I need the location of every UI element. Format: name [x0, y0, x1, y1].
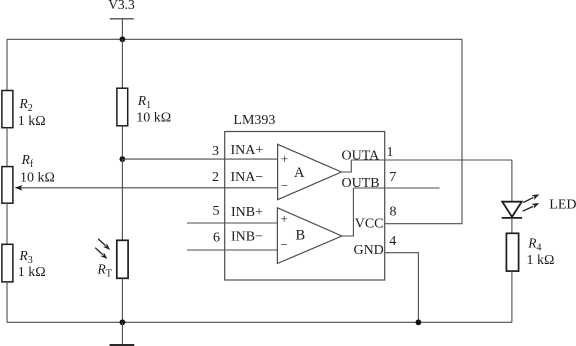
arrow RT irradiation 2 [95, 248, 107, 259]
wire mid rail node to RT [121, 159, 123, 240]
resistor R1 [117, 88, 171, 126]
LED D1 [502, 202, 522, 218]
svg-text:10 kΩ: 10 kΩ [136, 111, 171, 126]
resistor R2 [2, 91, 46, 129]
svg-text:OUTB: OUTB [342, 176, 380, 191]
ground [110, 322, 135, 345]
svg-text:1: 1 [387, 145, 394, 160]
arrow LED light 1 [523, 194, 539, 202]
wire pin3 INA+ [122, 158, 277, 160]
power symbol V3.3 [108, 0, 135, 19]
svg-text:6: 6 [213, 231, 220, 246]
wire top rail [7, 38, 462, 40]
wire LED to R4 [511, 218, 513, 233]
wire mid rail RT to bottom [121, 278, 123, 322]
arrow RT irradiation 1 [98, 239, 110, 250]
svg-text:1 kΩ: 1 kΩ [18, 265, 46, 280]
wire pin6 INB- [187, 249, 277, 251]
wire left rail R2-Rf [6, 128, 8, 167]
svg-text:8: 8 [390, 205, 397, 220]
wire mid rail upper [121, 39, 123, 88]
svg-text:INA+: INA+ [231, 143, 264, 158]
svg-text:LM393: LM393 [233, 113, 275, 128]
arrow LED light 2 [523, 203, 540, 211]
wire op-amp B output [342, 188, 354, 236]
svg-text:10 kΩ: 10 kΩ [20, 170, 55, 185]
wire op-amp A output [341, 160, 351, 172]
svg-text:2: 2 [212, 170, 219, 185]
svg-text:OUTA: OUTA [342, 148, 381, 163]
op-amp A [278, 144, 342, 199]
wire pin5 INB+ [187, 222, 277, 224]
svg-text:GND: GND [353, 243, 383, 258]
wire left rail Rf-R3 [6, 203, 8, 244]
svg-text:−: − [281, 178, 288, 193]
wire OUTB pin7 [353, 187, 439, 189]
svg-text:1 kΩ: 1 kΩ [527, 253, 555, 268]
wire OUTA pin1 [351, 159, 512, 161]
wire VCC pin8 to top rail [385, 39, 462, 223]
resistor R4 [506, 233, 554, 271]
svg-text:5: 5 [213, 204, 220, 219]
node junction top [120, 36, 126, 42]
resistor R3 [2, 244, 46, 282]
svg-text:4: 4 [389, 234, 396, 249]
wire power stem [121, 19, 123, 40]
svg-text:VCC: VCC [355, 216, 384, 231]
wire bottom rail [7, 321, 512, 323]
svg-text:+: + [281, 211, 288, 226]
svg-text:LED: LED [549, 198, 576, 213]
wire left rail lower [6, 282, 8, 322]
svg-text:INA−: INA− [231, 170, 264, 185]
wire left rail upper [6, 39, 8, 90]
svg-text:V3.3: V3.3 [108, 0, 135, 12]
wire mid rail R1 to node [121, 126, 123, 159]
svg-text:3: 3 [212, 144, 219, 159]
wire pin2 INA- with wiper arrow to Rf [15, 185, 278, 191]
thermistor RT [97, 240, 129, 279]
node junction INA+ [120, 156, 126, 162]
svg-text:+: + [281, 151, 288, 166]
wire GND pin4 to bottom rail [385, 253, 419, 323]
svg-text:A: A [294, 165, 305, 181]
op-amp B [277, 208, 342, 264]
wire R4 to bottom rail [511, 271, 513, 322]
svg-text:−: − [281, 237, 288, 252]
IC U1 LM393 box [225, 113, 385, 280]
potentiometer Rf [2, 152, 55, 203]
svg-text:7: 7 [389, 170, 396, 185]
node junction bottom GND [416, 319, 422, 325]
node junction bottom mid [120, 319, 126, 325]
svg-text:B: B [296, 228, 306, 244]
wire OUTA branch down to LED [511, 160, 513, 202]
svg-text:INB+: INB+ [231, 205, 263, 220]
svg-text:1 kΩ: 1 kΩ [18, 114, 46, 129]
svg-text:INB−: INB− [231, 229, 263, 244]
